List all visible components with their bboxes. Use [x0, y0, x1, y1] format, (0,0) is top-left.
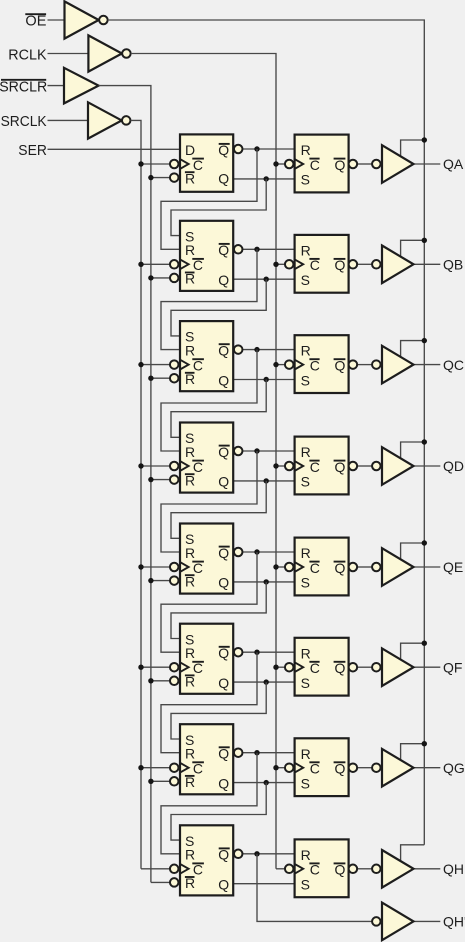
junction RCLK-bar rail row 3 [273, 362, 278, 367]
wire FF7.Q to FF8.S [171, 783, 266, 841]
wire FF1.Q-bar to FF2.R [161, 149, 257, 249]
wire RCLK-bar tap to L2.C [276, 263, 285, 265]
wire SER to FF1.D [48, 148, 181, 150]
svg-text:QB: QB [443, 257, 463, 273]
svg-text:S: S [301, 877, 310, 893]
wire FF7.Q-bar to L7.R [243, 752, 295, 754]
svg-text:S: S [301, 675, 310, 691]
junction FF6.Q-bar node [254, 650, 259, 655]
svg-text:S: S [301, 775, 310, 791]
junction SRCLK-bar rail row 3 [138, 362, 143, 367]
flip-flop FF5 (stage E) [170, 524, 243, 594]
wire FF3.Q to FF4.S [171, 380, 266, 438]
buffer B9 (QH') [372, 903, 413, 941]
wire FF6.Q to FF7.S [171, 682, 266, 739]
junction SRCLR rail row 3 [148, 376, 153, 381]
junction FF3.Q-bar node [254, 347, 259, 352]
junction OE-bar rail row 2 [422, 238, 427, 243]
svg-text:SER: SER [18, 142, 47, 159]
inverter U4 (SRCLK) [88, 102, 130, 138]
junction FF1.Q node [264, 176, 269, 181]
wire SRCLR tap to FF5.R-bar [151, 580, 170, 582]
svg-text:R: R [185, 342, 195, 358]
wire SRCLR tap to FF4.R-bar [151, 479, 170, 481]
tri-state buffer B7 (QG) [372, 749, 413, 787]
wire FF3.Q-bar to L3.R [243, 349, 295, 351]
wire FF2.Q-bar to L2.R [243, 248, 295, 250]
svg-text:QC: QC [443, 357, 464, 373]
net RCLK-bar rail (U2 output to latch clocks) [131, 54, 276, 869]
junction FF4.Q node [264, 478, 269, 483]
junction FF2.Q node [264, 277, 269, 282]
junction SRCLR rail row 4 [148, 477, 153, 482]
flip-flop FF7 (stage G) [170, 724, 243, 794]
wire FF4.Q-bar to FF5.R [161, 451, 257, 552]
junction FF4.Q-bar node [254, 448, 259, 453]
junction SRCLK-bar rail row 1 [138, 161, 143, 166]
wire L1.Q-bar to buffer B1 [357, 163, 372, 165]
wire buffer B6 to output QF [414, 666, 441, 668]
net SRCLR rail (U3 output to FF resets) [99, 86, 151, 883]
wire FF1.Q-bar to L1.R [243, 148, 295, 150]
wire RCLK-bar tap to L6.C [276, 666, 285, 668]
junction FF5.Q node [264, 579, 269, 584]
wire RCLK-bar tap to L5.C [276, 566, 285, 568]
junction OE-bar rail row 3 [422, 338, 427, 343]
svg-text:QE: QE [443, 559, 463, 575]
junction RCLK-bar rail row 1 [273, 161, 278, 166]
svg-text:R: R [301, 746, 311, 762]
wire L2.Q-bar to buffer B2 [357, 263, 372, 265]
junction RCLK-bar rail row 5 [273, 564, 278, 569]
latch L4 (stage D) [285, 437, 357, 495]
wire L8.Q-bar to buffer B8 [357, 868, 372, 870]
wire OE-bar tap to buffer B1 enable [401, 140, 425, 157]
tri-state buffer B2 (QB) [372, 246, 413, 284]
svg-text:QF: QF [443, 659, 462, 675]
wire OE-bar tap to buffer B7 enable [401, 744, 425, 761]
svg-text:OE: OE [25, 13, 46, 30]
wire FF1.Q to L1.S [233, 178, 294, 180]
wire SRCLK-bar tap to FF3.C [141, 364, 170, 366]
svg-text:R: R [185, 645, 195, 661]
wire SRCLR tap to FF8.R-bar [151, 881, 170, 883]
wire OE label to inverter U1 [48, 19, 65, 21]
net SRCLK-bar rail (U4 output to FF clocks) [131, 120, 142, 868]
wire L5.Q-bar to buffer B5 [357, 566, 372, 568]
svg-text:S: S [301, 575, 310, 591]
junction RCLK-bar rail row 4 [273, 463, 278, 468]
wire RCLK-bar tap to L3.C [276, 364, 285, 366]
svg-text:D: D [185, 142, 195, 158]
wire buffer B3 to output QC [414, 364, 441, 366]
svg-text:QD: QD [443, 458, 464, 474]
junction OE-bar rail row 1 [422, 137, 427, 142]
inverter U2 (RCLK) [88, 35, 130, 71]
wire OE-bar tap to buffer B3 enable [401, 341, 425, 358]
junction OE-bar rail row 7 [422, 741, 427, 746]
wire SRCLK label to inverter U4 [48, 119, 89, 121]
wire FF6.Q-bar to L6.R [243, 651, 295, 653]
wire FF4.Q to FF5.S [171, 481, 266, 538]
wire FF8.Q-bar to L8.R [243, 853, 295, 855]
svg-text:R: R [301, 142, 311, 158]
wire FF1.Q to FF2.S [171, 179, 266, 236]
junction FF3.Q node [264, 377, 269, 382]
wire SRCLR tap to FF3.R-bar [151, 377, 170, 379]
svg-text:Q: Q [218, 575, 229, 591]
junction OE-bar rail row 6 [422, 641, 427, 646]
svg-text:R: R [185, 444, 195, 460]
junction FF1.Q-bar node [254, 146, 259, 151]
latch L5 (stage E) [285, 538, 357, 596]
svg-text:R: R [301, 847, 311, 863]
wire buffer B1 to output QA [414, 163, 441, 165]
latch L2 (stage B) [285, 235, 357, 293]
wire SRCLK-bar tap to FF6.C [141, 666, 170, 668]
input label SRCLK [1, 113, 47, 130]
wire OE-bar tap to buffer B8 enable [401, 845, 425, 862]
svg-text:QG: QG [443, 760, 465, 776]
junction SRCLK-bar rail row 4 [138, 463, 143, 468]
wire FF3.Q to L3.S [233, 379, 294, 381]
junction FF5.Q-bar node [254, 549, 259, 554]
junction FF2.Q-bar node [254, 247, 259, 252]
svg-text:Q: Q [218, 170, 229, 186]
wire FF3.Q-bar to FF4.R [161, 350, 257, 451]
svg-text:R: R [185, 746, 195, 762]
svg-text:QA: QA [443, 156, 464, 172]
svg-text:R: R [301, 545, 311, 561]
wire SRCLK-bar tap to FF8.C [141, 868, 170, 870]
svg-text:QH: QH [443, 861, 464, 877]
tri-state buffer B4 (QD) [372, 447, 413, 485]
wire L3.Q-bar to buffer B3 [357, 364, 372, 366]
svg-text:R: R [185, 847, 195, 863]
wire buffer B7 to output QG [414, 767, 441, 769]
wire FF2.Q-bar to FF3.R [161, 249, 257, 349]
junction SRCLK-bar rail row 5 [138, 564, 143, 569]
junction SRCLR rail row 5 [148, 578, 153, 583]
wire RCLK-bar tap to L7.C [276, 767, 285, 769]
junction FF7.Q-bar node [254, 750, 259, 755]
wire L7.Q-bar to buffer B7 [357, 767, 372, 769]
input label SRCLR (active low) [0, 78, 47, 95]
junction FF8.Q-bar node [254, 851, 259, 856]
junction SRCLR rail row 7 [148, 779, 153, 784]
tri-state buffer B1 (QA) [372, 145, 413, 183]
latch L3 (stage C) [285, 335, 357, 393]
svg-text:Q: Q [218, 272, 229, 288]
svg-text:Q: Q [218, 372, 229, 388]
wire L4.Q-bar to buffer B4 [357, 465, 372, 467]
wire FF4.Q-bar to L4.R [243, 450, 295, 452]
junction SRCLR rail row 2 [148, 275, 153, 280]
tri-state buffer B3 (QC) [372, 346, 413, 384]
junction FF6.Q node [264, 679, 269, 684]
flip-flop FF3 (stage C) [170, 321, 243, 391]
tri-state buffer B6 (QF) [372, 648, 413, 686]
wire SRCLK-bar tap to FF1.C [141, 163, 170, 165]
wire SRCLR label to buffer U3 [48, 85, 65, 87]
junction FF7.Q node [264, 780, 269, 785]
wire FF6.Q-bar to FF7.R [161, 652, 257, 753]
wire FF5.Q-bar to FF6.R [161, 552, 257, 652]
wire RCLK-bar tap to L1.C [276, 163, 285, 165]
svg-text:Q: Q [218, 474, 229, 490]
wire FF5.Q-bar to L5.R [243, 551, 295, 553]
wire OE-bar tap to buffer B2 enable [401, 240, 425, 257]
wire RCLK label to inverter U2 [48, 53, 89, 55]
svg-text:Q: Q [218, 775, 229, 791]
flip-flop FF6 (stage F) [170, 624, 243, 694]
wire SRCLK-bar tap to FF7.C [141, 767, 170, 769]
wire FF7.Q to L7.S [233, 782, 294, 784]
inverter U1 (OE) [65, 1, 108, 38]
svg-text:QH': QH' [443, 914, 465, 930]
junction SRCLK-bar rail row 6 [138, 665, 143, 670]
junction SRCLK-bar rail row 7 [138, 765, 143, 770]
svg-text:Q: Q [218, 675, 229, 691]
junction SRCLR rail row 1 [148, 175, 153, 180]
net OE-bar rail (U1 output to tri-state enables) [108, 20, 425, 845]
svg-text:S: S [301, 474, 310, 490]
wire OE-bar tap to buffer B5 enable [401, 543, 425, 560]
input label OE (active low) [25, 13, 46, 30]
svg-text:R: R [185, 242, 195, 258]
svg-text:RCLK: RCLK [8, 46, 46, 63]
tri-state buffer B8 (QH) [372, 850, 413, 888]
wire RCLK-bar tap to L8.C [276, 868, 285, 870]
wire SRCLR tap to FF6.R-bar [151, 680, 170, 682]
wire FF2.Q to L2.S [233, 278, 294, 280]
latch L7 (stage G) [285, 738, 357, 796]
wire SRCLR tap to FF1.R-bar [151, 177, 170, 179]
wire SRCLK-bar tap to FF4.C [141, 465, 170, 467]
svg-text:R: R [301, 242, 311, 258]
wire buffer B8 to output QH [414, 868, 441, 870]
wire OE-bar tap to buffer B6 enable [401, 643, 425, 660]
wire buffer B5 to output QE [414, 566, 441, 568]
latch L1 (stage A) [285, 135, 357, 193]
wire FF8.Q to L8.S [233, 883, 294, 885]
wire FF6.Q to L6.S [233, 681, 294, 683]
svg-text:S: S [301, 372, 310, 388]
flip-flop FF1 (stage A) [170, 134, 243, 191]
svg-text:R: R [301, 444, 311, 460]
wire FF5.Q to FF6.S [171, 582, 266, 639]
svg-text:S: S [301, 272, 310, 288]
wire SRCLK-bar tap to FF5.C [141, 566, 170, 568]
latch L8 (stage H) [285, 839, 357, 897]
junction SRCLR rail row 6 [148, 678, 153, 683]
junction RCLK-bar rail row 2 [273, 262, 278, 267]
svg-text:R: R [301, 645, 311, 661]
wire buffer B4 to output QD [414, 465, 441, 467]
wire buffer B2 to output QB [414, 263, 441, 265]
junction SRCLK-bar rail row 2 [138, 262, 143, 267]
flip-flop FF4 (stage D) [170, 423, 243, 493]
wire L6.Q-bar to buffer B6 [357, 666, 372, 668]
wire FF4.Q to L4.S [233, 480, 294, 482]
tri-state buffer B5 (QE) [372, 548, 413, 586]
svg-text:S: S [301, 172, 310, 188]
latch L6 (stage F) [285, 638, 357, 696]
wire RCLK-bar tap to L4.C [276, 465, 285, 467]
svg-text:SRCLK: SRCLK [1, 113, 47, 130]
junction OE-bar rail row 5 [422, 540, 427, 545]
wire SRCLR tap to FF7.R-bar [151, 780, 170, 782]
wire FF7.Q-bar to FF8.R [161, 753, 257, 854]
wire FF8.Q-bar to QH' buffer B9 [257, 854, 372, 922]
svg-text:SRCLR: SRCLR [0, 78, 47, 95]
wire SRCLK-bar tap to FF2.C [141, 263, 170, 265]
flip-flop FF2 (stage B) [170, 221, 243, 291]
wire OE-bar tap to buffer B4 enable [401, 442, 425, 459]
wire FF5.Q to L5.S [233, 581, 294, 583]
wire buffer B9 to output QH' [414, 920, 441, 922]
junction RCLK-bar rail row 7 [273, 765, 278, 770]
buffer U3 (SRCLR) [64, 68, 99, 104]
svg-text:Q: Q [218, 877, 229, 893]
junction RCLK-bar rail row 6 [273, 665, 278, 670]
junction OE-bar rail row 4 [422, 439, 427, 444]
svg-text:R: R [185, 545, 195, 561]
wire SRCLR tap to FF2.R-bar [151, 277, 170, 279]
flip-flop FF8 (stage H) [170, 825, 243, 895]
wire FF2.Q to FF3.S [171, 279, 266, 336]
input label RCLK [8, 46, 46, 63]
svg-text:R: R [301, 343, 311, 359]
